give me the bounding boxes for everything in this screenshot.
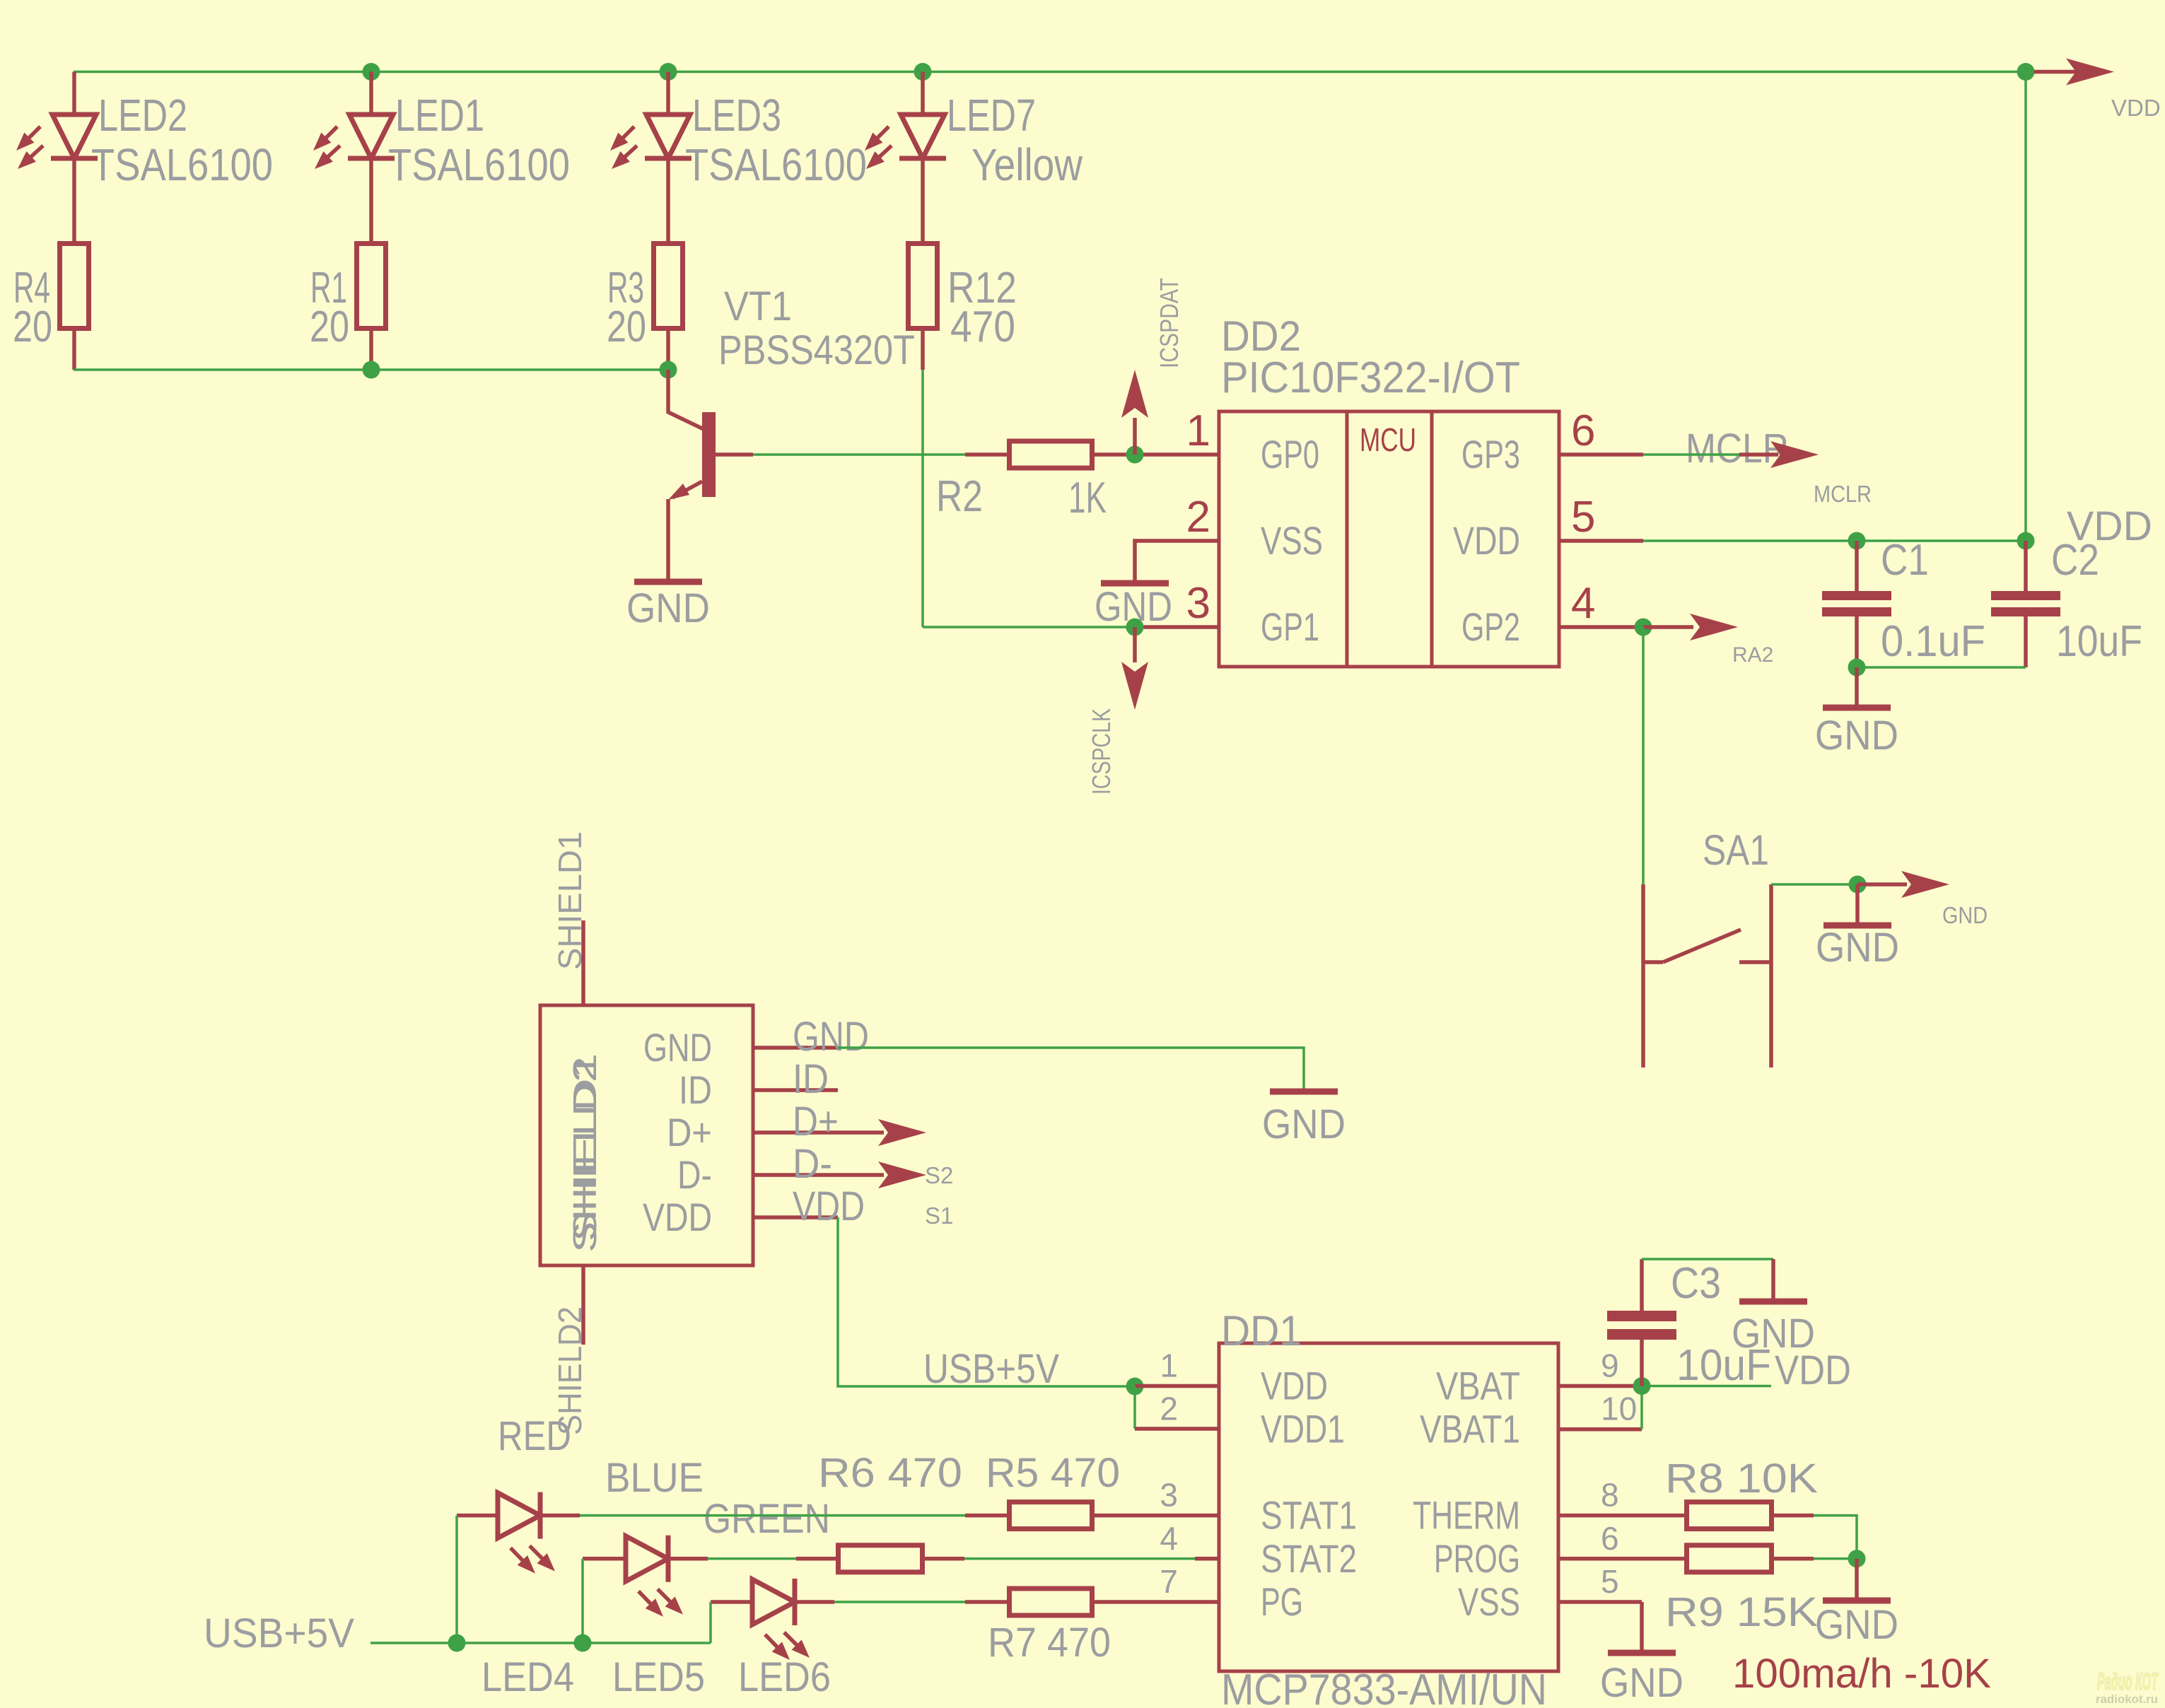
svg-text:GND: GND	[1262, 1101, 1346, 1147]
svg-text:Yellow: Yellow	[971, 139, 1083, 190]
label R2	[936, 472, 983, 521]
pin name GP2	[1461, 604, 1520, 649]
svg-text:2: 2	[1160, 1391, 1178, 1427]
label R6 470	[818, 1450, 962, 1496]
svg-text:LED7: LED7	[947, 90, 1036, 141]
svg-text:LED5: LED5	[612, 1654, 705, 1700]
svg-text:R8 10K: R8 10K	[1665, 1456, 1818, 1502]
svg-text:GND: GND	[1815, 713, 1898, 759]
net label S1	[925, 1203, 953, 1229]
wire VSS stub (DD1)	[1558, 1600, 1642, 1604]
resistor R1	[357, 244, 386, 329]
D+ arrow	[838, 1119, 926, 1146]
wire BLUE net2	[964, 1557, 1195, 1560]
svg-text:10uF: 10uF	[2056, 617, 2142, 666]
svg-text:VBAT: VBAT	[1436, 1364, 1520, 1408]
wire MCLR stub	[1559, 452, 1643, 457]
pin name VBAT (right)	[1436, 1364, 1520, 1408]
pin name SHIELD1 inner	[566, 1053, 603, 1241]
wire R8 left	[1645, 1514, 1684, 1518]
pin number 3	[1186, 579, 1210, 628]
GND arrow	[1857, 871, 1949, 898]
wire LED3 anode	[666, 72, 670, 117]
node R1 bottom	[363, 361, 380, 379]
svg-text:TSAL6100: TSAL6100	[685, 139, 867, 190]
wire R5 right	[1095, 1514, 1219, 1518]
wire C1 C2 bottom	[1857, 666, 2026, 669]
svg-text:ICSPCLK: ICSPCLK	[1087, 708, 1116, 795]
svg-text:C3: C3	[1671, 1259, 1721, 1308]
wire R4 bottom	[72, 331, 76, 370]
wire LED1 cathode	[369, 158, 373, 243]
svg-text:PROG: PROG	[1434, 1536, 1520, 1581]
node LED4 drop	[448, 1634, 466, 1652]
wire LED6 drop	[709, 1602, 712, 1643]
ground VT1	[626, 582, 710, 631]
svg-text:PG: PG	[1261, 1579, 1303, 1624]
pin name GP0	[1261, 432, 1319, 476]
wire LED4 right	[540, 1514, 580, 1518]
pin name ID	[679, 1067, 712, 1112]
svg-text:PBSS4320T: PBSS4320T	[718, 327, 915, 373]
LED LED1	[313, 115, 395, 169]
pin D- stub	[753, 1173, 838, 1177]
resistor R8	[1687, 1502, 1772, 1529]
svg-text:1K: 1K	[1068, 474, 1107, 522]
pin name VSS	[1261, 518, 1323, 563]
svg-text:4: 4	[1571, 579, 1595, 628]
net label RED	[498, 1413, 571, 1459]
svg-text:20: 20	[310, 303, 349, 351]
RA2 arrow	[1643, 614, 1738, 640]
LED LED2	[16, 115, 98, 169]
wire R12 bottom	[921, 331, 925, 370]
wire LED4 left	[457, 1514, 498, 1518]
wire LED5 drop	[581, 1559, 584, 1643]
svg-text:STAT2: STAT2	[1261, 1536, 1357, 1581]
svg-text:20: 20	[13, 303, 52, 351]
ground conn GND	[1262, 1092, 1346, 1147]
svg-text:S1: S1	[925, 1203, 953, 1229]
LED LED6	[752, 1579, 810, 1660]
svg-text:VSS: VSS	[1261, 518, 1323, 563]
resistor R7	[1010, 1589, 1092, 1615]
net label VDD big	[2067, 503, 2152, 549]
node DD1 pin1	[1126, 1378, 1144, 1396]
wire VDD net	[1643, 539, 2026, 542]
ground DD1 VSS	[1600, 1602, 1683, 1706]
wire R8 right	[1774, 1514, 1814, 1518]
net label VDD (conn)	[793, 1183, 865, 1229]
net label GND small	[1942, 902, 1988, 928]
wire BLUE net	[708, 1557, 796, 1560]
pin name GP3	[1461, 432, 1520, 476]
node LED3 top	[660, 63, 677, 81]
pin number 2	[1186, 493, 1210, 542]
value 10uF	[2056, 617, 2142, 666]
value LED7	[971, 139, 1083, 190]
wire R6 right	[925, 1557, 964, 1561]
net label VDD (VBAT)	[1775, 1347, 1851, 1393]
svg-text:DD1: DD1	[1221, 1307, 1302, 1355]
net label USB+5V bottom	[204, 1610, 354, 1656]
DD1 pin number 2	[1160, 1391, 1178, 1427]
svg-text:RED: RED	[498, 1413, 571, 1459]
svg-text:MCU: MCU	[1360, 421, 1416, 458]
wire R12 to GP1	[921, 370, 924, 627]
pin name SHIELD2 inner	[566, 1056, 603, 1253]
wire LED1 anode	[369, 72, 373, 117]
net label USB+5V	[923, 1346, 1059, 1392]
value PBSS4320T	[718, 327, 915, 373]
pin name STAT2	[1261, 1536, 1357, 1581]
svg-text:R6 470: R6 470	[818, 1450, 962, 1496]
label R5 470	[986, 1450, 1120, 1496]
svg-text:D+: D+	[793, 1099, 839, 1145]
wire R5 left	[965, 1514, 1007, 1518]
wire C3 top net	[1642, 1258, 1773, 1260]
svg-text:VT1: VT1	[724, 283, 792, 329]
wire R8 to node	[1814, 1516, 1857, 1559]
svg-text:9: 9	[1601, 1347, 1619, 1384]
svg-text:THERM: THERM	[1413, 1493, 1520, 1538]
ICSPCLK arrow	[1121, 627, 1148, 710]
ground C3	[1732, 1259, 1815, 1357]
net label D+	[793, 1099, 839, 1145]
value R3	[607, 303, 646, 351]
svg-text:GND: GND	[793, 1014, 869, 1060]
svg-text:TSAL6100: TSAL6100	[388, 139, 570, 190]
wire SA1 to GND	[1771, 883, 1857, 886]
wire R9 to node	[1814, 1557, 1857, 1560]
svg-text:VBAT1: VBAT1	[1420, 1407, 1520, 1451]
IC DD2 outline	[1219, 411, 1559, 667]
svg-text:20: 20	[607, 303, 646, 351]
svg-text:STAT1: STAT1	[1261, 1493, 1357, 1538]
svg-text:8: 8	[1601, 1477, 1619, 1514]
svg-text:VDD: VDD	[643, 1195, 712, 1239]
net label ICSPCLK	[1087, 708, 1116, 795]
svg-text:BLUE: BLUE	[605, 1455, 704, 1501]
value 0.1uF	[1881, 617, 1985, 666]
svg-text:R7 470: R7 470	[988, 1620, 1111, 1666]
svg-text:GND: GND	[626, 585, 710, 631]
node LED1 top	[363, 63, 380, 81]
node LED7 top	[914, 63, 932, 81]
wire MCLR net	[1643, 453, 1739, 456]
svg-text:GND: GND	[1942, 902, 1988, 928]
wire LED3 cathode	[666, 158, 670, 243]
pin number 1	[1186, 406, 1210, 455]
wire R6 left	[796, 1557, 836, 1561]
pin name GND	[643, 1025, 712, 1070]
pin name VDD (DD2)	[1453, 518, 1520, 563]
DD1 pin number 7	[1160, 1563, 1178, 1600]
svg-text:RA2: RA2	[1732, 643, 1773, 667]
wire VBAT1 link	[1640, 1386, 1643, 1429]
svg-text:MCP7833-AMI/UN: MCP7833-AMI/UN	[1221, 1666, 1547, 1708]
DD1 pin number 10	[1601, 1391, 1637, 1427]
svg-text:4: 4	[1160, 1520, 1178, 1557]
wire GP2 stub	[1559, 625, 1643, 629]
svg-text:Радио КОТ: Радио КОТ	[2097, 1668, 2159, 1695]
pin name PROG (right)	[1434, 1536, 1520, 1581]
pin name VBAT1 (right)	[1420, 1407, 1520, 1451]
svg-text:TSAL6100: TSAL6100	[91, 139, 273, 190]
svg-text:GREEN: GREEN	[704, 1496, 830, 1542]
value R1	[310, 303, 349, 351]
value R4	[13, 303, 52, 351]
svg-text:ID: ID	[793, 1056, 829, 1102]
svg-text:GND: GND	[643, 1025, 712, 1070]
LED LED7	[865, 115, 946, 169]
svg-text:GP1: GP1	[1261, 604, 1319, 649]
MCLR arrow	[1739, 441, 1819, 468]
wire GND net	[838, 1048, 1304, 1089]
svg-text:1: 1	[1186, 406, 1210, 455]
wire LED6 right	[795, 1600, 834, 1604]
node R3 bottom	[660, 361, 677, 379]
pin number 5	[1571, 493, 1595, 542]
ground R8R9	[1815, 1559, 1898, 1648]
svg-text:USB+5V: USB+5V	[923, 1346, 1059, 1392]
svg-text:R5 470: R5 470	[986, 1450, 1120, 1496]
net label MCLR	[1686, 426, 1789, 472]
label LED5	[612, 1654, 705, 1700]
VDD off-page arrow	[2034, 59, 2114, 86]
wire VT1 base stub	[716, 452, 753, 457]
label R7 470	[988, 1620, 1111, 1666]
wire VDD right vertical	[2024, 72, 2027, 542]
wire R7 left	[965, 1600, 1007, 1604]
label SA1	[1703, 826, 1769, 874]
DD1 pin number 5	[1601, 1563, 1619, 1600]
connector X1 outline	[540, 1005, 753, 1265]
net label S2	[925, 1162, 953, 1188]
LED LED3	[610, 115, 691, 169]
node C1 bottom	[1848, 659, 1866, 677]
pin number 6	[1571, 406, 1595, 455]
label LED1	[395, 90, 484, 141]
svg-text:USB+5V: USB+5V	[204, 1610, 354, 1656]
capacitor C2	[1991, 541, 2060, 667]
svg-text:VDD: VDD	[1453, 518, 1520, 563]
label R1	[310, 264, 347, 312]
svg-text:PIC10F322-I/OT: PIC10F322-I/OT	[1221, 353, 1520, 402]
capacitor C1	[1822, 541, 1891, 667]
value LED1	[388, 139, 570, 190]
pin number 4	[1571, 579, 1595, 628]
svg-text:GND: GND	[1732, 1311, 1815, 1357]
pin name STAT1	[1261, 1493, 1357, 1538]
wire USB+5V net	[838, 1217, 1135, 1386]
svg-text:R9 15K: R9 15K	[1665, 1589, 1818, 1635]
wire THERM stub	[1558, 1514, 1645, 1518]
wire LED5 right	[668, 1557, 708, 1561]
svg-text:6: 6	[1601, 1520, 1619, 1557]
svg-text:C2: C2	[2051, 536, 2099, 585]
DD1 pin number 9	[1601, 1347, 1619, 1384]
value 10uF (C3)	[1676, 1341, 1771, 1390]
transistor VT1	[702, 412, 716, 497]
wire GREEN net	[834, 1601, 965, 1603]
wire GP2 to SA1	[1642, 627, 1645, 884]
wire LED6 left	[711, 1600, 752, 1604]
wire R3 bottom	[666, 331, 670, 370]
pin GND stub	[753, 1046, 838, 1050]
svg-text:3: 3	[1160, 1477, 1178, 1514]
svg-text:2: 2	[1186, 493, 1210, 542]
resistor R12	[909, 244, 938, 329]
wire USB5V bus	[370, 1642, 711, 1644]
svg-text:1: 1	[1160, 1347, 1178, 1384]
svg-text:GP3: GP3	[1461, 432, 1520, 476]
label R4	[13, 264, 50, 312]
wire LED7 cathode	[921, 158, 925, 243]
label LED7	[947, 90, 1036, 141]
wire SHIELD2	[581, 1265, 585, 1345]
svg-text:C1: C1	[1881, 536, 1929, 585]
LED LED4	[498, 1492, 555, 1574]
VT1 emitter	[668, 481, 702, 580]
svg-text:5: 5	[1571, 493, 1595, 542]
wire GP1 stub	[1135, 625, 1219, 629]
wire STAT2 stub	[1195, 1557, 1219, 1561]
svg-text:D+: D+	[667, 1110, 712, 1154]
wire VDD top rail	[74, 71, 2026, 74]
label VT1	[724, 283, 792, 329]
net label SHIELD1	[552, 831, 588, 970]
svg-text:5: 5	[1601, 1563, 1619, 1600]
label R3	[607, 264, 644, 312]
LED LED5	[626, 1536, 683, 1617]
svg-text:470: 470	[950, 303, 1015, 351]
wire VT1 collector	[668, 370, 704, 429]
resistor R9	[1687, 1545, 1772, 1572]
svg-text:VSS: VSS	[1458, 1579, 1520, 1624]
IC DD1 outline	[1219, 1343, 1558, 1671]
wire LED return bus	[74, 368, 668, 371]
value MCP7833-AMI/UN	[1221, 1666, 1547, 1708]
svg-text:3: 3	[1186, 579, 1210, 628]
svg-text:GP2: GP2	[1461, 604, 1520, 649]
svg-text:SHIELD1: SHIELD1	[566, 1053, 603, 1241]
resistor R4	[60, 244, 89, 329]
wire R9 left	[1645, 1557, 1684, 1561]
svg-text:100ma/h -10K: 100ma/h -10K	[1732, 1651, 1991, 1697]
net label RA2	[1732, 643, 1773, 667]
node VBAT	[1633, 1377, 1651, 1395]
value LED2	[91, 139, 273, 190]
ground DD2 VSS	[1095, 583, 1172, 630]
label DD2	[1221, 312, 1301, 360]
node LED5 drop	[574, 1634, 592, 1652]
wire R9 right	[1774, 1557, 1814, 1561]
svg-text:LED1: LED1	[395, 90, 484, 141]
label C2	[2051, 536, 2099, 585]
pin name THERM (right)	[1413, 1493, 1520, 1538]
value LED3	[685, 139, 867, 190]
resistor R6	[839, 1545, 923, 1572]
value R12	[950, 303, 1015, 351]
wire LED7 anode	[921, 72, 925, 117]
wire DD1 pin2 link	[1133, 1386, 1136, 1429]
DD1 pin number 4	[1160, 1520, 1178, 1557]
wire LED2 anode	[72, 72, 76, 117]
wire DD1 pin2 stub	[1135, 1427, 1219, 1431]
ground SA1	[1816, 884, 1899, 971]
wire VBAT1 stub	[1558, 1427, 1642, 1432]
pin name VSS (right)	[1458, 1579, 1520, 1624]
label C1	[1881, 536, 1929, 585]
pin name PG	[1261, 1579, 1303, 1624]
label LED4	[482, 1654, 574, 1700]
svg-text:7: 7	[1160, 1563, 1178, 1600]
wire VSS pin2	[1135, 541, 1219, 581]
label LED3	[692, 90, 781, 141]
svg-text:VDD: VDD	[793, 1183, 865, 1229]
pin name VDD	[643, 1195, 712, 1239]
wire LED5 left	[583, 1557, 626, 1561]
wire PROG stub	[1558, 1557, 1645, 1561]
net label BLUE	[605, 1455, 704, 1501]
svg-text:S2: S2	[925, 1162, 953, 1188]
svg-text:GND: GND	[1816, 925, 1899, 971]
svg-text:10: 10	[1601, 1391, 1637, 1427]
value PIC10F322-I/OT	[1221, 353, 1520, 402]
node SA1 GND	[1849, 876, 1867, 894]
net label D-	[793, 1141, 832, 1187]
svg-text:SA1: SA1	[1703, 826, 1769, 874]
svg-text:VDD: VDD	[2111, 95, 2161, 121]
D- arrow	[838, 1162, 926, 1188]
svg-text:ID: ID	[679, 1067, 712, 1112]
svg-text:LED3: LED3	[692, 90, 781, 141]
pin VDD stub	[753, 1215, 838, 1219]
pin name VDD	[1261, 1364, 1328, 1408]
pin name D+	[667, 1110, 712, 1154]
wire R2 right	[1095, 452, 1219, 457]
wire R2 left	[965, 452, 1007, 457]
net label SHIELD2	[552, 1306, 588, 1435]
svg-text:LED6: LED6	[738, 1654, 831, 1700]
label DD1	[1221, 1307, 1302, 1355]
node GP0	[1126, 446, 1144, 464]
wire R1 bottom	[369, 331, 373, 370]
wire VBAT net	[1642, 1385, 1771, 1388]
svg-text:D-: D-	[793, 1141, 832, 1187]
resistor R3	[654, 244, 683, 329]
DD1 pin number 1	[1160, 1347, 1178, 1384]
pin D+ stub	[753, 1130, 838, 1135]
pin name GP1	[1261, 604, 1319, 649]
node C2 top	[2017, 532, 2035, 550]
svg-text:0.1uF: 0.1uF	[1881, 617, 1985, 666]
net label MCLR small	[1814, 481, 1872, 507]
svg-text:VDD: VDD	[1261, 1364, 1328, 1408]
svg-text:GP0: GP0	[1261, 432, 1319, 476]
pin name VDD1	[1261, 1407, 1345, 1451]
svg-text:ICSPDAT: ICSPDAT	[1155, 278, 1184, 368]
watermark	[2096, 1668, 2159, 1706]
label MCU	[1360, 421, 1416, 458]
resistor R2	[1010, 441, 1092, 468]
node GP2	[1635, 619, 1652, 636]
svg-text:DD2: DD2	[1221, 312, 1301, 360]
svg-text:GND: GND	[1600, 1660, 1683, 1706]
capacitor C3	[1607, 1259, 1676, 1386]
wire GP1 net	[923, 626, 1135, 628]
